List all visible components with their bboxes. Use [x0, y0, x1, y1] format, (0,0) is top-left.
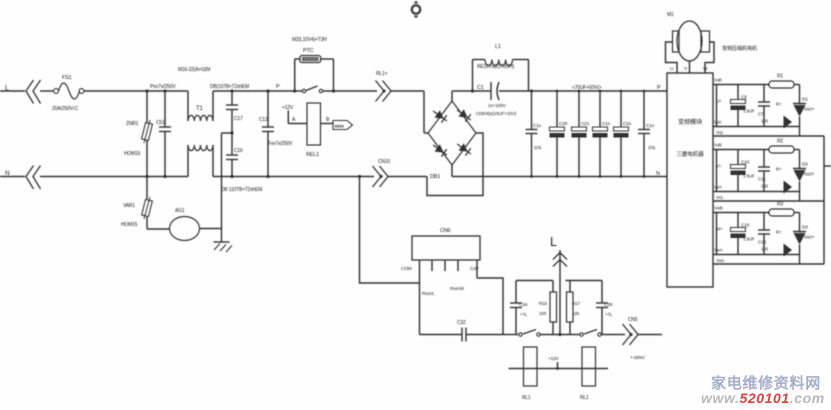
wire stage 1 bottom rail	[713, 126, 800, 128]
diode D3	[793, 213, 815, 265]
value label DB107 top	[210, 84, 249, 90]
thermistor PTC	[292, 37, 327, 63]
connector chevron L	[26, 80, 41, 104]
svg-text:R3: R3	[777, 202, 783, 208]
capacitor C7	[758, 85, 770, 127]
svg-text:D2: D2	[802, 162, 808, 168]
wire bridge + output	[452, 91, 473, 101]
svg-text:+7L: +7L	[520, 312, 528, 317]
wire A terminal	[288, 117, 307, 124]
value label F474/250V	[150, 84, 176, 90]
svg-text:C34: C34	[519, 302, 528, 308]
svg-text:D1: D1	[802, 97, 808, 103]
wire CN10 to bridge	[388, 133, 483, 196]
svg-text:C20: C20	[559, 121, 568, 127]
svg-text:ZNR1: ZNR1	[126, 121, 139, 127]
svg-text:+7L: +7L	[605, 312, 613, 317]
connector RL1+	[376, 71, 392, 102]
wire bridge - output	[452, 165, 667, 177]
svg-text:P: P	[657, 85, 661, 91]
svg-text:变频压缩机电机: 变频压缩机电机	[722, 44, 758, 52]
wire stage 3 top rail	[713, 212, 800, 214]
capacitor C16	[226, 133, 243, 178]
wire contact a to center	[541, 333, 580, 336]
junction dots cap bank	[530, 90, 645, 178]
pin labels stage 1	[714, 78, 724, 136]
resistor R3	[769, 202, 794, 217]
svg-text:C16: C16	[234, 148, 243, 154]
wire N input	[0, 176, 25, 178]
svg-text:变频模块: 变频模块	[678, 118, 702, 126]
svg-text:103: 103	[761, 247, 768, 252]
svg-text:C1: C1	[477, 85, 484, 91]
svg-text:W: W	[703, 66, 708, 72]
svg-text:VAR1: VAR1	[123, 203, 135, 209]
svg-text:<70UF+50V(>: <70UF+50V(>	[572, 85, 602, 91]
svg-text:101: 101	[648, 145, 656, 151]
svg-text:1x+100V: 1x+100V	[488, 103, 507, 109]
+12V supply	[282, 105, 294, 124]
svg-text:N10+: N10+	[804, 107, 815, 112]
label N rail	[656, 171, 660, 177]
svg-text:VuB: VuB	[714, 78, 722, 83]
varistor ZNR1	[124, 89, 152, 178]
capacitor C13	[259, 89, 293, 178]
node P	[276, 84, 280, 90]
svg-text:1 5UF: 1 5UF	[743, 174, 755, 179]
capacitor C19	[526, 91, 542, 177]
svg-text:C21: C21	[581, 121, 590, 127]
relay contact SW1	[295, 86, 377, 93]
label B+ node stage 1	[776, 102, 782, 107]
svg-text:RE107x(8170GH): RE107x(8170GH)	[477, 64, 514, 70]
wire PTC branch right	[321, 59, 336, 93]
svg-text:C2x: C2x	[623, 121, 632, 127]
watermark site name	[701, 374, 825, 406]
svg-text:RxxVL: RxxVL	[422, 291, 435, 296]
wire PTC branch left	[293, 59, 300, 93]
wire right bus vertical	[823, 136, 825, 264]
capacitor C20 (electrolytic)	[550, 91, 568, 177]
svg-text:VvB: VvB	[714, 143, 722, 148]
bridge DB1 body	[428, 101, 476, 180]
+12V supply relays	[548, 356, 560, 370]
wire to contact a	[503, 334, 518, 336]
varistor VAR1	[121, 177, 152, 230]
svg-text:N10+: N10+	[804, 235, 815, 240]
svg-text:100: 100	[539, 311, 547, 316]
svg-text:C29: C29	[604, 302, 613, 308]
wire fuse to T1	[84, 90, 188, 92]
svg-text:www.520101.com: www.520101.com	[701, 390, 825, 405]
svg-text:R17: R17	[572, 301, 580, 306]
wire T1 to P node (top)	[213, 90, 295, 92]
svg-text:REL1: REL1	[306, 152, 319, 158]
wire contact b to CN5	[602, 334, 626, 336]
wire relay coils	[509, 368, 609, 370]
diode D1	[793, 85, 815, 137]
op-amp U1 inverter module	[667, 73, 713, 287]
svg-text:VvA: VvA	[714, 185, 722, 190]
wire stage 1 left vertical	[716, 85, 718, 127]
relay coil RL1 right	[580, 347, 596, 401]
connector CN10	[373, 159, 391, 187]
svg-text:20A/250V-C: 20A/250V-C	[52, 106, 78, 112]
label P pin	[657, 85, 661, 91]
svg-text:Vv1: Vv1	[716, 195, 724, 200]
label B+ node stage 2	[776, 167, 782, 172]
svg-text:P: P	[276, 84, 280, 90]
svg-text:AG1: AG1	[175, 208, 185, 214]
svg-text:HOM15: HOM15	[124, 151, 141, 157]
svg-text:+-W/xV: +-W/xV	[630, 355, 646, 361]
connector CN6	[412, 228, 480, 260]
value label DB107 bottom	[221, 187, 262, 193]
ground	[214, 133, 233, 252]
wire stage 1 top rail	[713, 84, 800, 86]
svg-text:DB1: DB1	[430, 174, 440, 180]
wire L input	[0, 90, 25, 92]
svg-text:VuA: VuA	[714, 120, 722, 125]
arrow marker stage 2	[784, 181, 793, 194]
diode D2	[793, 150, 815, 202]
capacitor C1 (series)	[473, 82, 529, 117]
capacitor C11	[758, 150, 770, 192]
pin labels stage 3	[714, 206, 725, 264]
svg-text:C13: C13	[259, 117, 268, 123]
svg-text:CxP: CxP	[470, 266, 478, 272]
net flag label	[333, 121, 353, 130]
wire phase output 3	[713, 263, 824, 265]
svg-text:M16-22(A+G(M: M16-22(A+G(M	[178, 67, 210, 73]
svg-text:M1: M1	[667, 12, 674, 18]
svg-text:M2(L10V4)+T3H: M2(L10V4)+T3H	[292, 37, 327, 43]
svg-text:CN10: CN10	[378, 159, 390, 165]
svg-text:RL1: RL1	[580, 395, 589, 401]
wire bracket right	[566, 280, 603, 282]
fuse FS1	[52, 75, 84, 112]
svg-text:C51: C51	[156, 120, 165, 126]
wire T1 to CN10 (bottom)	[213, 176, 374, 178]
inductor L1	[471, 44, 529, 93]
svg-text:N: N	[656, 171, 660, 177]
arrestor AG1	[147, 208, 222, 241]
svg-text:C11: C11	[758, 177, 766, 182]
relay coil REL1	[306, 103, 321, 158]
wire stage 3 left vertical	[716, 213, 718, 255]
svg-text:Vw1: Vw1	[716, 258, 725, 263]
svg-text:VwB: VwB	[714, 206, 723, 211]
relay contact a	[519, 330, 540, 337]
pin labels stage 2	[714, 143, 724, 201]
node L (line input)	[5, 85, 9, 92]
capacitor C34	[510, 281, 528, 335]
connector chevron N	[26, 166, 41, 190]
relay coil RL1 left	[522, 347, 537, 401]
svg-text:C10: C10	[741, 160, 750, 166]
svg-text:CDD4(x(10UF+10V): CDD4(x(10UF+10V)	[476, 111, 517, 117]
svg-text:CN5: CN5	[628, 317, 638, 323]
svg-text:Fxx7x/250V: Fxx7x/250V	[268, 141, 293, 147]
wire stage 2 top rail	[713, 149, 800, 151]
svg-text:B+: B+	[776, 102, 782, 107]
svg-text:103: 103	[761, 184, 768, 189]
value label M16-22	[178, 67, 210, 73]
pin CxP	[470, 260, 503, 335]
svg-text:Vu1: Vu1	[716, 130, 724, 135]
wire phase output 2	[713, 200, 824, 202]
wire CN6 down leg	[419, 283, 421, 335]
label bus voltage	[572, 85, 602, 91]
svg-text:C1x: C1x	[533, 123, 542, 129]
svg-text:R1: R1	[777, 74, 783, 80]
relay contact b	[580, 330, 601, 337]
svg-text:101: 101	[534, 145, 542, 151]
motor M1	[666, 12, 715, 73]
wire B terminal	[321, 117, 334, 124]
svg-text:C1x: C1x	[602, 121, 611, 127]
wire phase output 1	[713, 135, 824, 137]
wire L to fuse	[40, 90, 54, 92]
svg-text:+12V: +12V	[282, 105, 294, 111]
capacitor C2x (electrolytic)	[614, 91, 632, 177]
svg-text:N10+: N10+	[804, 172, 815, 177]
connector L (vertical)	[550, 235, 567, 335]
wire N tap down	[358, 175, 420, 283]
svg-text:C32: C32	[457, 320, 466, 326]
svg-text:C1x: C1x	[646, 123, 655, 129]
svg-text:FS1: FS1	[62, 75, 72, 81]
svg-text:+12V: +12V	[548, 356, 560, 362]
page marker symbol	[412, 1, 420, 19]
svg-text:PTC: PTC	[303, 48, 314, 54]
svg-text:U+: U+	[716, 99, 722, 104]
wire right edge stub	[824, 165, 831, 167]
capacitor C10 (electrolytic 1.5UF)	[731, 150, 755, 192]
wire stage 2 left vertical	[716, 150, 718, 192]
svg-text:L: L	[550, 235, 557, 249]
connector CN5	[623, 317, 663, 361]
capacitor C17	[226, 89, 243, 133]
svg-text:VwA: VwA	[714, 248, 723, 253]
svg-text:B+: B+	[776, 230, 782, 235]
svg-text:C13: C13	[758, 240, 766, 245]
wire + rail to module	[529, 89, 668, 92]
svg-text:100: 100	[572, 311, 580, 316]
svg-text:R2: R2	[777, 139, 783, 145]
svg-text:C17: C17	[234, 116, 243, 122]
capacitor C21 (electrolytic)	[572, 91, 590, 177]
capacitor C1x (electrolytic)	[593, 91, 611, 177]
svg-text:C7: C7	[758, 112, 764, 117]
svg-text:C15: C15	[741, 223, 750, 229]
capacitor C51	[156, 89, 171, 178]
resistor R16	[539, 281, 557, 335]
label compressor motor	[722, 44, 758, 52]
svg-text:HOM15: HOM15	[121, 222, 138, 228]
wire bracket left	[516, 280, 553, 282]
resistor R1	[769, 74, 794, 89]
svg-text:RL1: RL1	[522, 395, 531, 401]
svg-text:COM: COM	[401, 266, 412, 272]
capacitor C32 (series)	[420, 320, 504, 342]
wire N to T1	[40, 176, 188, 178]
capacitor C5 (electrolytic 1.5UF)	[731, 85, 755, 127]
capacitor C13	[758, 213, 770, 255]
svg-text:RxxVM: RxxVM	[450, 286, 464, 291]
arrow marker stage 1	[784, 116, 793, 129]
node N (neutral input)	[5, 170, 10, 177]
wire RL1+ to bridge	[391, 91, 429, 133]
capacitor C10	[638, 91, 656, 177]
svg-text:R16: R16	[539, 301, 547, 306]
svg-text:B+: B+	[776, 167, 782, 172]
svg-text:DB 110TB+T2xhEM: DB 110TB+T2xhEM	[221, 187, 262, 193]
capacitor C15 (electrolytic 1.5UF)	[731, 213, 755, 255]
resistor R17	[567, 281, 581, 335]
svg-text:三菱电机器: 三菱电机器	[677, 150, 705, 158]
capacitor C29	[596, 281, 613, 335]
svg-text:RL1+: RL1+	[376, 71, 388, 77]
pins RxxVL RxxVM	[422, 260, 464, 296]
svg-text:CN6: CN6	[440, 228, 451, 234]
wire stage 2 bottom rail	[713, 191, 800, 193]
svg-text:T1: T1	[196, 106, 203, 112]
svg-text:L1: L1	[495, 44, 501, 50]
svg-text:1 5UF: 1 5UF	[743, 237, 755, 242]
transformer T1 (common mode choke)	[188, 91, 213, 177]
pin COM	[401, 260, 420, 283]
wire Y-cap midpoint to ground	[222, 131, 234, 134]
resistor R2	[769, 139, 794, 154]
svg-text:DB(107B+T2xhEM: DB(107B+T2xhEM	[210, 84, 249, 90]
svg-text:xxxx: xxxx	[335, 124, 345, 129]
svg-text:1 5UF: 1 5UF	[743, 109, 755, 114]
svg-text:D3: D3	[802, 225, 808, 231]
svg-text:W+: W+	[716, 227, 723, 232]
svg-text:103: 103	[761, 119, 768, 124]
label B+ node stage 3	[776, 230, 782, 235]
svg-text:C5: C5	[741, 95, 747, 101]
svg-text:V+: V+	[716, 164, 722, 169]
wire stage 3 bottom rail	[713, 254, 800, 256]
arrow marker stage 3	[784, 244, 793, 257]
svg-text:Pxx7x/250V: Pxx7x/250V	[150, 84, 176, 90]
